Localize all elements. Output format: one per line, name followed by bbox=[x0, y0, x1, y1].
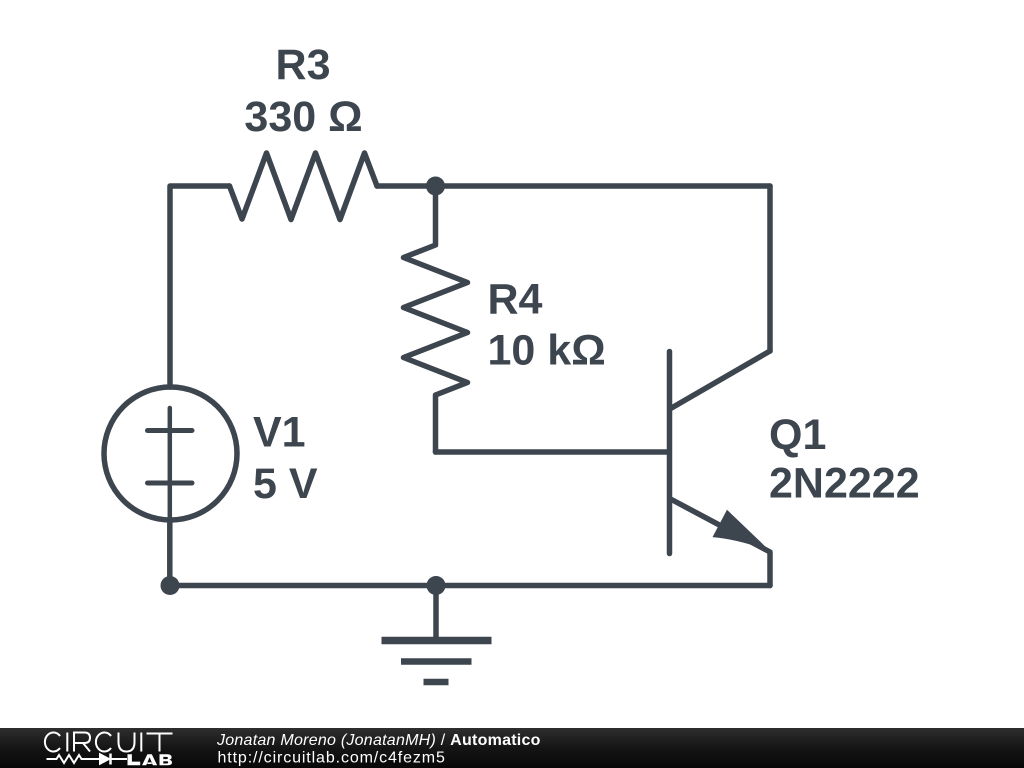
footer bar bbox=[0, 728, 1024, 768]
logo CIRCUIT bbox=[45, 733, 173, 752]
junction dot: bottom middle bbox=[427, 576, 446, 595]
svg-text:330 Ω: 330 Ω bbox=[244, 93, 362, 141]
ground symbol bbox=[382, 586, 492, 683]
svg-text:R4: R4 bbox=[488, 276, 543, 324]
svg-text:5 V: 5 V bbox=[253, 460, 318, 508]
wire: left rail from top-left corner down to V1 top bbox=[170, 186, 230, 387]
junction dot: top node bbox=[426, 177, 445, 196]
wire: top node from R3 to collector corner bbox=[377, 183, 770, 189]
svg-text:10 kΩ: 10 kΩ bbox=[488, 327, 606, 375]
wire: base wire bbox=[436, 449, 668, 455]
svg-text:http://circuitlab.com/c4fezm5: http://circuitlab.com/c4fezm5 bbox=[218, 750, 446, 767]
logo resistor-diode bbox=[47, 754, 128, 765]
wire: collector riser bbox=[767, 186, 773, 351]
svg-text:V1: V1 bbox=[253, 409, 306, 457]
svg-text:R3: R3 bbox=[276, 41, 331, 89]
voltage source V1 bbox=[104, 387, 237, 586]
junction dot: bottom left bbox=[161, 576, 180, 595]
svg-text:2N2222: 2N2222 bbox=[769, 460, 920, 508]
transistor Q1 bbox=[670, 351, 771, 586]
resistor R3 zigzag bbox=[230, 153, 378, 220]
logo LAB bbox=[128, 754, 173, 765]
resistor R4 with leads bbox=[404, 186, 468, 452]
svg-text:Jonatan Moreno (JonatanMH) / A: Jonatan Moreno (JonatanMH) / Automatico bbox=[216, 732, 541, 749]
svg-text:Q1: Q1 bbox=[769, 411, 826, 459]
wire: bottom rail bbox=[170, 583, 770, 589]
